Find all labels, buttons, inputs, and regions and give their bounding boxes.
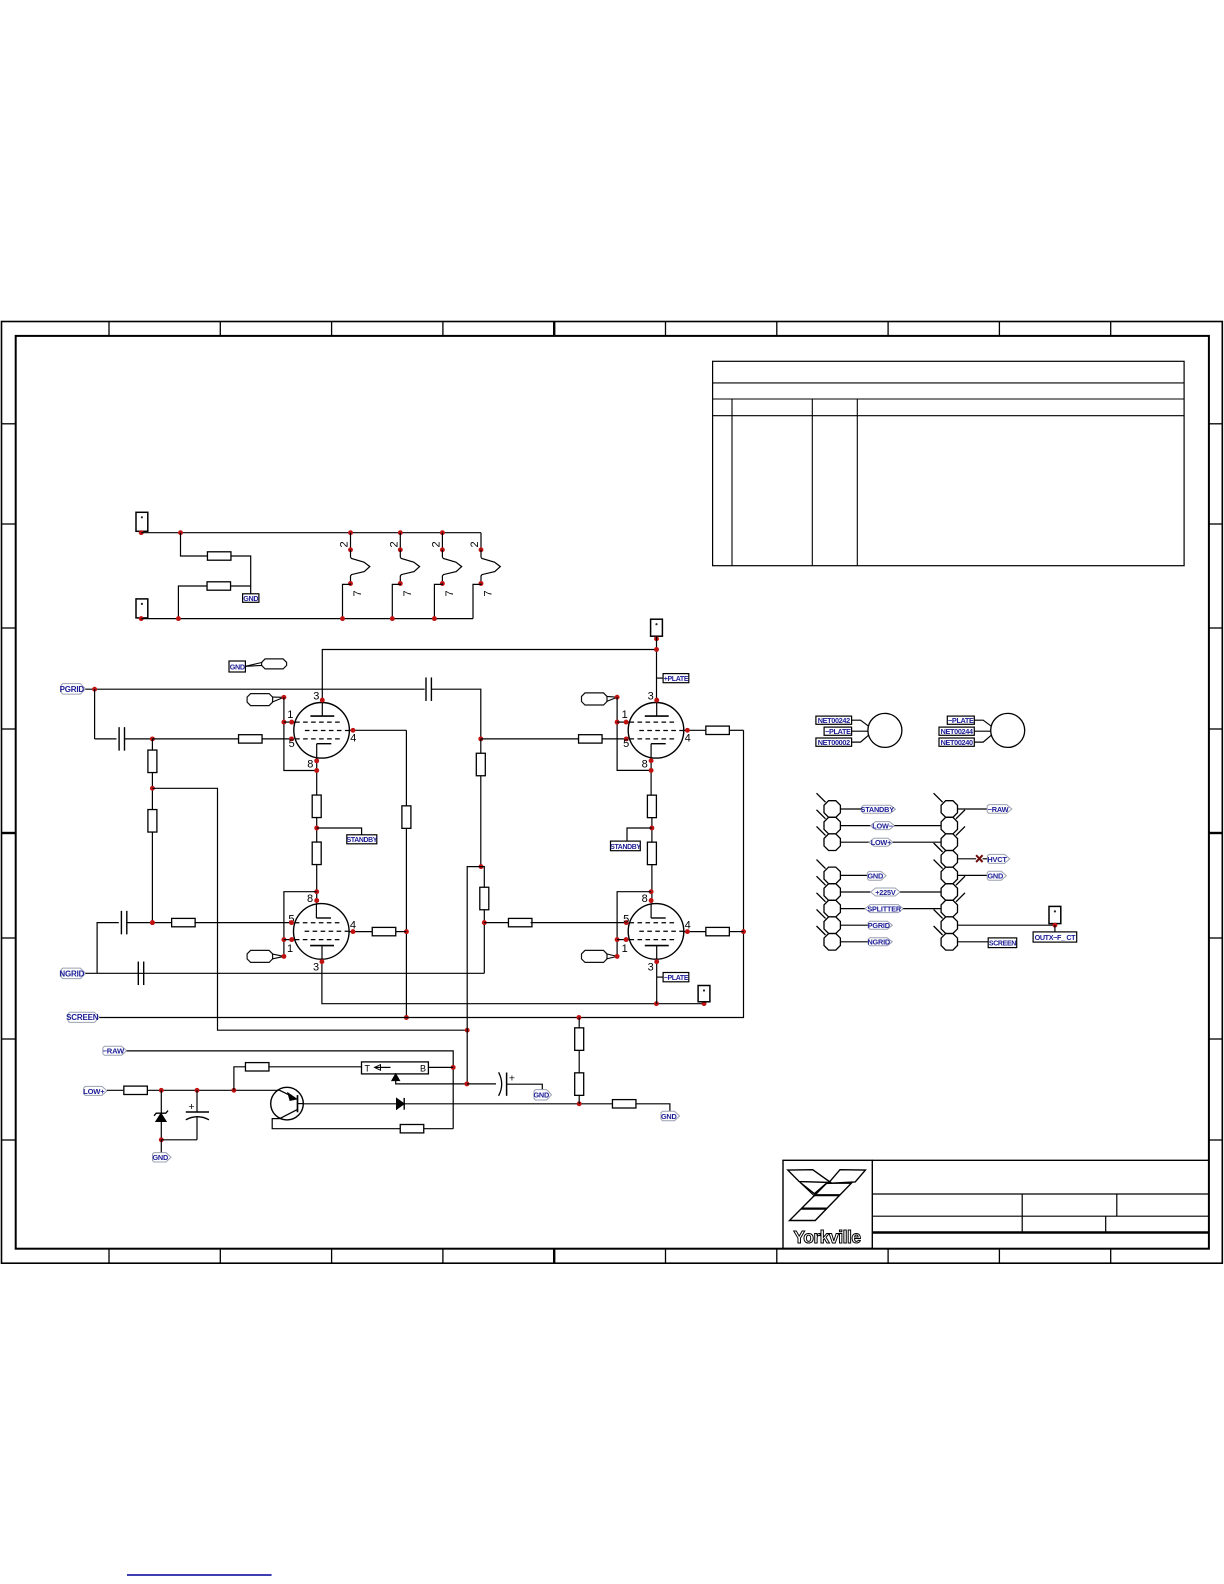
resistor R-scr2 — [575, 1073, 584, 1096]
svg-text:GND: GND — [987, 872, 1003, 881]
svg-text:1: 1 — [287, 709, 293, 721]
resistor R-div-1 — [148, 750, 157, 773]
svg-text:3: 3 — [648, 962, 654, 974]
node LOW+ flag — [84, 1086, 107, 1095]
wire — [152, 788, 467, 1030]
svg-text:−RAW: −RAW — [103, 1047, 125, 1056]
svg-text:1: 1 — [622, 943, 628, 955]
wire — [428, 1066, 453, 1068]
wire pin4 — [684, 729, 706, 731]
svg-text:5: 5 — [289, 738, 295, 750]
connector pin array L9 — [824, 934, 840, 951]
junction — [615, 720, 620, 725]
wire — [231, 556, 251, 594]
svg-text:PGRID: PGRID — [60, 685, 85, 694]
capacitor C-bias (polarized) — [186, 1090, 209, 1140]
svg-text:7: 7 — [402, 590, 414, 596]
wire — [636, 1104, 670, 1112]
wire — [316, 817, 318, 842]
wire — [903, 908, 941, 910]
junction pin3 — [654, 698, 659, 703]
potentiometer VR-bias — [362, 1062, 467, 1084]
diode D-bias — [397, 1098, 405, 1110]
svg-text:5: 5 — [623, 913, 629, 925]
node -RAW flag — [103, 1046, 127, 1055]
wire — [97, 923, 119, 974]
svg-text:+225V: +225V — [875, 888, 896, 897]
node -RAW flag R — [987, 805, 1012, 814]
svg-text:3: 3 — [648, 690, 654, 702]
resistor R-g1-V1 — [239, 735, 262, 743]
connector pin array L6 — [824, 884, 840, 901]
junction — [465, 1028, 470, 1033]
svg-text:GND: GND — [661, 1112, 677, 1121]
svg-text:LOW+: LOW+ — [83, 1087, 105, 1096]
wire — [840, 841, 869, 843]
svg-text:NET00242: NET00242 — [818, 716, 850, 725]
connector pin array L1 — [824, 801, 840, 818]
junction — [482, 920, 487, 925]
resistor R-trim-feed — [245, 1063, 269, 1071]
junction — [314, 826, 319, 831]
junction — [178, 530, 183, 535]
node PGRID flag — [868, 921, 892, 929]
wire — [484, 922, 510, 924]
junction — [176, 616, 181, 621]
resistor R-k2b — [647, 842, 656, 865]
junction — [451, 1065, 456, 1070]
ground GND flag L — [867, 871, 886, 880]
resistor R-g1-V4 — [508, 918, 532, 926]
junction — [624, 720, 629, 725]
svg-text:+: + — [509, 1072, 515, 1084]
wire pin4 — [349, 931, 372, 933]
svg-text:8: 8 — [642, 758, 648, 770]
wire — [983, 858, 988, 860]
capacitor C-couple-top — [425, 677, 427, 701]
junction — [685, 728, 690, 733]
wire — [151, 739, 153, 750]
svg-text:T: T — [365, 1063, 371, 1073]
svg-text:GND: GND — [533, 1091, 549, 1100]
ground GND flag 3 — [661, 1111, 680, 1120]
connector P2 (circular) — [939, 713, 1025, 747]
wire plate rail V1 — [322, 650, 656, 701]
junction — [615, 954, 620, 959]
wire — [404, 1103, 613, 1105]
wire — [148, 1089, 280, 1091]
junction — [195, 1088, 200, 1093]
title block table — [783, 1160, 1209, 1248]
resistor R-sg-V2 — [706, 726, 730, 734]
junction pin3 — [320, 698, 325, 703]
wire tail — [657, 677, 664, 679]
zener diode D-z — [154, 1090, 168, 1140]
junction — [92, 687, 97, 692]
wire — [531, 922, 629, 924]
junction — [741, 929, 746, 934]
resistor R-gnd — [612, 1100, 636, 1108]
junction — [319, 959, 324, 964]
ground GND box — [243, 594, 259, 603]
svg-text:B: B — [420, 1063, 426, 1073]
svg-text:−PLATE: −PLATE — [664, 975, 689, 982]
wire — [483, 910, 485, 974]
wire — [127, 922, 173, 924]
callout V4 — [582, 950, 608, 962]
wire — [840, 825, 870, 827]
wire — [480, 776, 482, 867]
wire — [1054, 925, 1056, 932]
svg-text:8: 8 — [307, 893, 313, 905]
svg-text:GND: GND — [230, 662, 245, 671]
svg-text:STANDBY: STANDBY — [347, 837, 378, 844]
wire pin3 — [656, 959, 658, 1004]
svg-text:LOW−: LOW− — [872, 822, 892, 831]
wire pin4 — [349, 729, 406, 731]
junction — [351, 728, 356, 733]
wire — [151, 772, 153, 809]
junction — [159, 1137, 164, 1142]
wire base — [303, 1103, 396, 1105]
hyperlink underline — [127, 1574, 272, 1576]
node PGRID flag — [61, 684, 85, 695]
wire — [230, 585, 250, 587]
wire — [840, 874, 867, 876]
wire — [900, 891, 941, 893]
junction — [576, 1015, 581, 1020]
junction — [289, 937, 294, 942]
wire heater top rail — [141, 532, 481, 534]
junction — [624, 736, 629, 741]
svg-text:NGRID: NGRID — [867, 938, 890, 947]
wire -RAW — [127, 1051, 454, 1129]
transistor Q-bias (PNP) — [271, 1087, 304, 1120]
sheet border frame — [2, 322, 1223, 1264]
wire — [152, 738, 238, 740]
wire pin8 — [650, 758, 652, 795]
junction — [289, 720, 294, 725]
wire — [431, 689, 480, 739]
junction — [577, 1101, 582, 1106]
junction — [649, 768, 654, 773]
junction — [654, 647, 659, 652]
revision table — [713, 361, 1185, 565]
wire — [481, 867, 484, 888]
junction — [649, 889, 654, 894]
junction — [615, 695, 620, 700]
resistor R-div-2 — [148, 810, 157, 833]
resistor R-sg-V4 — [706, 927, 730, 935]
svg-text:1: 1 — [287, 943, 293, 955]
connector pin array R5 — [941, 867, 957, 884]
wire — [316, 864, 318, 903]
resistor R-g1-V2 — [579, 735, 603, 743]
connector pin array R4 — [941, 851, 957, 868]
junction — [139, 616, 144, 621]
resistor R-heater-2 — [207, 582, 231, 590]
connector pin array L2 — [824, 817, 840, 834]
wire — [958, 941, 989, 943]
svg-text:7: 7 — [444, 590, 456, 596]
svg-text:−RAW: −RAW — [988, 805, 1009, 814]
wire STANDBY tap — [627, 828, 652, 841]
connector pin array R7 — [941, 900, 957, 917]
node SCREEN box — [988, 938, 1017, 948]
wire — [840, 908, 865, 910]
ERC marker X — [976, 855, 983, 862]
junction — [702, 1001, 707, 1006]
tube V1 — [294, 703, 350, 759]
connector P1 (circular) — [816, 713, 902, 747]
svg-text:NET00244: NET00244 — [941, 727, 974, 736]
tube heater filament 2 (pins 2/7) — [388, 530, 419, 621]
junction — [654, 959, 659, 964]
connector pin +PLATE — [651, 619, 663, 636]
junction — [159, 1088, 164, 1093]
resistor R-fb — [400, 1125, 424, 1133]
junction — [314, 758, 319, 763]
junction — [150, 920, 155, 925]
capacitor C-ngrid-g — [120, 911, 122, 935]
junction — [139, 530, 144, 535]
svg-text:SCREEN: SCREEN — [989, 941, 1016, 948]
junction — [281, 954, 286, 959]
connector pin array R6 — [941, 884, 957, 901]
svg-text:2: 2 — [388, 541, 400, 547]
connector pin array L8 — [824, 917, 840, 934]
node NGRID flag — [868, 938, 892, 946]
wire PGRID — [85, 688, 424, 690]
svg-text:STANDBY: STANDBY — [861, 805, 895, 814]
wire — [578, 1018, 580, 1028]
wire — [423, 1128, 453, 1130]
svg-text:GND: GND — [243, 594, 258, 603]
wire — [234, 1067, 246, 1091]
tube heater filament 4 (pins 2/7) — [469, 533, 500, 619]
wire — [107, 1089, 123, 1091]
junction — [654, 1001, 659, 1006]
node LOW- pill — [871, 822, 895, 830]
wire — [840, 924, 868, 926]
resistor R-k1b — [312, 842, 321, 865]
wire — [94, 689, 96, 739]
Yorkville logo — [788, 1170, 866, 1247]
junction — [281, 937, 286, 942]
capacitor C-pgrid — [118, 727, 120, 751]
junction — [624, 920, 629, 925]
wire — [651, 864, 653, 903]
svg-text:3: 3 — [313, 690, 319, 702]
wire — [894, 825, 941, 827]
wire OUTX — [958, 924, 1055, 926]
svg-text:+: + — [188, 1101, 194, 1113]
callout V1 — [247, 694, 273, 706]
wire — [160, 1140, 162, 1153]
tube V4 — [628, 904, 684, 960]
node SCREEN flag — [68, 1012, 99, 1022]
svg-text:PGRID: PGRID — [868, 921, 890, 930]
wire — [602, 738, 629, 740]
wire SCREEN — [99, 730, 743, 1017]
wire — [651, 817, 653, 842]
node STANDBY box — [347, 835, 377, 844]
wire — [578, 1050, 580, 1073]
svg-text:LOW+: LOW+ — [871, 838, 891, 847]
ground GND flag with callout — [229, 659, 287, 672]
svg-text:STANDBY: STANDBY — [610, 844, 641, 851]
node LOW+ pill — [869, 838, 893, 846]
connector pin array R3 — [941, 834, 957, 851]
junction — [289, 736, 294, 741]
wire tail — [657, 976, 663, 978]
svg-text:NET00002: NET00002 — [818, 738, 850, 747]
node SPLITTER pill — [865, 905, 903, 913]
wire — [578, 1095, 580, 1104]
wire — [396, 931, 407, 933]
junction — [624, 937, 629, 942]
junction pin5 jct — [150, 920, 155, 925]
wire — [405, 730, 407, 806]
svg-text:2: 2 — [430, 541, 442, 547]
wire collector — [272, 1119, 401, 1129]
resistor R-k2a — [647, 795, 656, 818]
node OUTX-F_CT box — [1033, 932, 1077, 942]
svg-text:8: 8 — [307, 758, 313, 770]
junction — [281, 720, 286, 725]
resistor R-sp2 — [480, 887, 489, 910]
svg-text:NGRID: NGRID — [59, 969, 84, 978]
node -PLATE box — [663, 973, 689, 982]
svg-text:OUTX−F_ CT: OUTX−F_ CT — [1035, 933, 1077, 942]
svg-text:−PLATE: −PLATE — [948, 716, 974, 725]
node +225V pill — [871, 888, 901, 896]
svg-text:Yorkville: Yorkville — [793, 1227, 861, 1247]
junction — [314, 898, 319, 903]
tube heater filament 3 (pins 2/7) — [430, 530, 461, 621]
svg-text:NET00240: NET00240 — [941, 738, 973, 747]
wire — [262, 738, 294, 740]
wire — [729, 931, 743, 933]
svg-text:2: 2 — [339, 541, 351, 547]
wire jog — [467, 867, 481, 1084]
wire pin8 bracket — [617, 892, 651, 957]
svg-text:7: 7 — [352, 590, 364, 596]
connector pin array R8 — [941, 917, 957, 934]
svg-text:2: 2 — [469, 541, 481, 547]
capacitor C-gnd (polarized) — [499, 1072, 543, 1096]
wire pin1 — [284, 721, 295, 723]
svg-text:8: 8 — [642, 893, 648, 905]
junction — [314, 768, 319, 773]
connector pin OUTX-F_CT — [1049, 906, 1061, 923]
wire pin1 — [617, 721, 629, 723]
junction — [649, 758, 654, 763]
junction — [150, 786, 155, 791]
wire pin8 — [316, 758, 318, 795]
svg-text:HVCT: HVCT — [987, 855, 1007, 864]
wire — [958, 808, 988, 810]
wire — [840, 808, 862, 810]
svg-text:SPLITTER: SPLITTER — [867, 905, 902, 914]
wire — [729, 729, 743, 731]
wire — [268, 1066, 361, 1068]
wire +PLATE feed — [656, 636, 658, 700]
resistor R-sp1 — [476, 753, 485, 776]
tube V2 — [628, 703, 684, 759]
wire — [480, 739, 482, 753]
callout V3 — [247, 950, 273, 962]
junction — [654, 636, 659, 641]
junction — [479, 864, 484, 869]
wire STANDBY tap — [317, 828, 362, 835]
resistor R-heater-1 — [207, 552, 231, 560]
wire pin1 — [617, 939, 629, 941]
ground GND flag R — [987, 871, 1006, 880]
junction — [150, 736, 155, 741]
resistor R-g1-V3 — [172, 918, 196, 926]
svg-text:4: 4 — [685, 733, 691, 745]
tube V3 — [294, 904, 350, 960]
wire — [151, 832, 153, 923]
resistor R-low — [124, 1086, 148, 1094]
wire — [840, 891, 870, 893]
junction — [649, 826, 654, 831]
wire — [125, 738, 153, 740]
connector pin array R9 — [941, 934, 957, 951]
connector pin array R2 — [941, 817, 957, 834]
resistor R-k1a — [312, 795, 321, 818]
node +PLATE box — [663, 674, 689, 683]
ground GND flag 2 — [534, 1090, 552, 1100]
junction — [289, 920, 294, 925]
resistor R-scr1 — [575, 1028, 584, 1051]
wire pin3 -PLATE — [322, 959, 704, 1004]
wire pin1 bracket — [617, 697, 651, 770]
wire — [840, 941, 868, 943]
junction — [404, 1015, 409, 1020]
capacitor C-ngrid — [137, 962, 139, 986]
tube heater filament 1 (pins 2/7) — [339, 530, 370, 621]
svg-text:5: 5 — [623, 738, 629, 750]
wire — [893, 841, 941, 843]
connector pin OUT -PLATE — [698, 986, 710, 1002]
node STANDBY box 2 — [611, 841, 641, 851]
connector pin J-heater-A — [136, 512, 148, 531]
wire — [161, 1139, 197, 1141]
svg-text:+PLATE: +PLATE — [664, 676, 689, 683]
ground GND flag — [153, 1153, 172, 1162]
junction — [615, 937, 620, 942]
wire — [181, 533, 208, 556]
svg-text:SCREEN: SCREEN — [66, 1013, 99, 1022]
node STANDBY flag — [862, 805, 895, 813]
wire — [958, 858, 977, 860]
wire — [467, 1083, 496, 1085]
junction — [649, 898, 654, 903]
junction — [281, 695, 286, 700]
node HVCT flag — [988, 854, 1010, 863]
svg-text:1: 1 — [622, 709, 628, 721]
junction — [351, 929, 356, 934]
junction — [404, 929, 409, 934]
wire pin8 bracket — [284, 892, 317, 957]
svg-text:GND: GND — [867, 872, 883, 881]
junction — [1052, 923, 1057, 928]
wire — [958, 874, 988, 876]
connector pin array R1 — [941, 801, 957, 818]
connector pin array L3 — [824, 834, 840, 851]
